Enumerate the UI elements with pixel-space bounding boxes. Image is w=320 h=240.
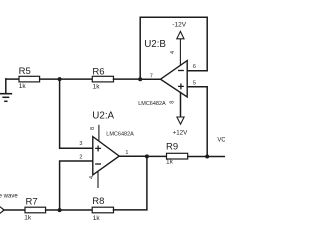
svg-text:R6: R6 [92,67,104,78]
wire U2:A output pin 1 to node D [119,155,147,157]
wire node A down to U2:A pin 3 [60,79,93,148]
power +12V arrow [177,117,184,124]
node A [58,77,62,81]
svg-text:U2:B: U2:B [144,39,166,50]
wire ground to R5 [6,78,19,80]
wire R7 to node C [46,209,60,211]
svg-text:1k: 1k [93,215,101,222]
node D [145,154,149,158]
ground [0,79,11,101]
wire R6 to node B [114,78,141,80]
power -12V arrow [177,31,184,38]
svg-text:LMC6482A: LMC6482A [138,101,166,107]
wire node E to output VOUT [207,156,225,158]
svg-text:R9: R9 [166,141,178,152]
svg-text:3: 3 [79,141,82,147]
wire node C up to U2:A pin 2 [60,161,93,210]
wire node D to R9 [147,155,167,157]
svg-text:4: 4 [170,51,176,54]
wire node E up to U2:B pin 5 [187,87,207,157]
wire feedback node D down and left to R8 [114,156,147,210]
svg-text:R7: R7 [26,196,38,207]
wire node B to U2:B output pin 7 [140,78,160,80]
wire feedback U2:B output to pin 6 (top rail) [140,17,207,79]
svg-text:1k: 1k [93,84,101,91]
svg-text:R5: R5 [19,66,31,77]
op-amp U2:B triangle [161,61,188,97]
wire node C to R8 [60,209,93,211]
U2:A V- pin stub (4) [97,172,99,188]
svg-text:5: 5 [193,80,196,86]
resistor R9 [167,153,188,159]
wire R9 to node E [188,156,208,158]
resistor R7 [25,207,46,213]
svg-text:+12V: +12V [173,130,188,137]
U2:A minus input sign [96,163,101,165]
svg-text:8: 8 [170,101,176,104]
svg-text:1k: 1k [166,159,174,166]
svg-text:7: 7 [150,73,153,79]
node B [138,77,142,81]
svg-text:VOUT: VOUT [217,138,225,144]
node C [58,208,62,212]
svg-text:4: 4 [89,176,95,179]
resistor R5 [19,76,40,82]
resistor R8 [92,207,113,213]
svg-text:2: 2 [79,154,82,160]
svg-text:LMC6482A: LMC6482A [106,131,134,137]
svg-text:6: 6 [193,64,196,70]
U2:A plus input sign [96,146,101,151]
resistor R6 [92,76,113,82]
svg-text:1k: 1k [19,83,27,90]
wire node A to R6 [60,78,93,80]
svg-text:R8: R8 [92,196,104,207]
U2:B plus input sign [179,84,184,89]
node E [205,155,209,159]
svg-text:8: 8 [90,127,96,130]
op-amp U2:A triangle [93,137,119,175]
input terminal arrow [0,207,4,213]
svg-text:1k: 1k [24,215,32,222]
svg-text:sine wave: sine wave [0,193,18,199]
U2:B minus input sign [179,70,184,72]
U2:A V+ pin stub (8) [98,125,100,139]
U2:B V+ pin stub (8) down [180,93,182,118]
svg-text:1: 1 [125,150,128,156]
wire R5 to node A [40,78,60,80]
svg-text:-12V: -12V [172,22,186,29]
svg-text:U2:A: U2:A [92,111,114,122]
U2:B V- pin stub (4) up [179,39,181,65]
wire input to R7 [4,209,26,211]
